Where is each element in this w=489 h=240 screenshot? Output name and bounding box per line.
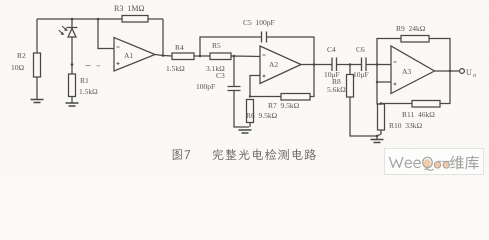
- wire A1 output: [155, 55, 172, 57]
- wire top feedback rail: [37, 18, 122, 20]
- wire C3 to ground bus: [234, 91, 249, 128]
- wire A2 output: [301, 64, 332, 66]
- wire R6 to ground bus: [249, 123, 251, 128]
- watermark box: [385, 149, 484, 175]
- resistor R6: [247, 100, 254, 123]
- output terminal: [460, 69, 465, 74]
- node R6/R7 junction: [249, 95, 251, 97]
- op-amp A1: [114, 38, 155, 72]
- wire R8 branch: [349, 65, 351, 75]
- wire R3 right leg down to output node: [162, 19, 164, 56]
- wire R10 branch down: [377, 65, 381, 105]
- ground under R2: [31, 100, 44, 103]
- wire rail down to A1 - input: [98, 19, 114, 49]
- node diode/R1 junction: [71, 63, 74, 66]
- wire diode to node: [71, 37, 73, 65]
- wire R9 feedback up: [377, 39, 401, 65]
- ground C3/R6: [239, 130, 252, 133]
- resistor R8: [347, 75, 354, 98]
- node C3 tap: [233, 55, 236, 58]
- ground under R10: [371, 140, 384, 143]
- wire C5 to output leg: [267, 37, 314, 65]
- scan noise overlay: [0, 0, 1, 1]
- node inv branch: [97, 18, 100, 21]
- node A2 output junction: [313, 63, 316, 66]
- node A3 + branch: [376, 81, 378, 83]
- wire left branch down to R2: [36, 19, 38, 53]
- node output feedback junction: [449, 70, 452, 73]
- wire R2 to ground: [36, 77, 38, 99]
- wire output down to R7: [310, 65, 314, 97]
- wire C4 to C6: [337, 64, 362, 66]
- resistor R10: [378, 104, 385, 130]
- wire R11 feedback down: [440, 71, 450, 104]
- node C6/R9/R10 junction: [376, 63, 379, 66]
- node A1 output: [162, 54, 165, 57]
- light arrows: [59, 26, 68, 34]
- ground under R1: [66, 103, 79, 106]
- wire to A3 + input: [377, 81, 391, 83]
- wire R9 to output leg: [429, 39, 450, 72]
- resistor R4: [172, 53, 194, 60]
- resistor R5: [210, 53, 231, 60]
- wire node to A1 + input (faint): [86, 65, 101, 67]
- wire R5 to A2: [231, 55, 260, 58]
- op-amp A3: [391, 46, 435, 94]
- resistor R1: [69, 74, 76, 97]
- caption 图7 完整光电检测电路: [173, 149, 317, 161]
- wire C3 branch: [233, 56, 235, 86]
- node R8 tap: [349, 63, 352, 66]
- wire ground stub: [376, 136, 378, 140]
- wire R11 to R10 node: [381, 103, 412, 106]
- op-amp A2: [260, 46, 301, 84]
- resistor R11: [412, 101, 440, 108]
- wire R10 to ground: [377, 130, 381, 136]
- watermark 维库: [450, 156, 464, 170]
- wire node up to A2 + input: [250, 76, 260, 97]
- wire R8 to ground bus: [350, 97, 377, 136]
- node R4/R5: [199, 55, 202, 58]
- resistor R2: [34, 53, 41, 77]
- photodiode D1: [67, 28, 78, 38]
- watermark WeeQoo logo: [389, 157, 453, 171]
- resistor R9: [401, 36, 429, 43]
- capacitor C6: [362, 58, 367, 72]
- resistor R3: [122, 16, 148, 23]
- wire R4 to R5: [194, 55, 210, 57]
- node diode top: [71, 18, 74, 21]
- node ground bus: [376, 135, 379, 138]
- node R10/R11 junction: [380, 102, 382, 104]
- capacitor C4: [332, 58, 337, 72]
- wire A3 output: [435, 70, 460, 72]
- wire rail to photodiode: [71, 19, 73, 28]
- wire R7 to R6 node: [250, 96, 281, 98]
- capacitor C5: [262, 32, 267, 43]
- wire feedback up branch: [200, 37, 261, 56]
- resistor R7: [281, 94, 310, 101]
- wire R1 to ground: [71, 97, 73, 104]
- wire C6 to A3: [366, 64, 391, 66]
- wire node to R1: [71, 65, 73, 75]
- capacitor C3: [228, 87, 241, 91]
